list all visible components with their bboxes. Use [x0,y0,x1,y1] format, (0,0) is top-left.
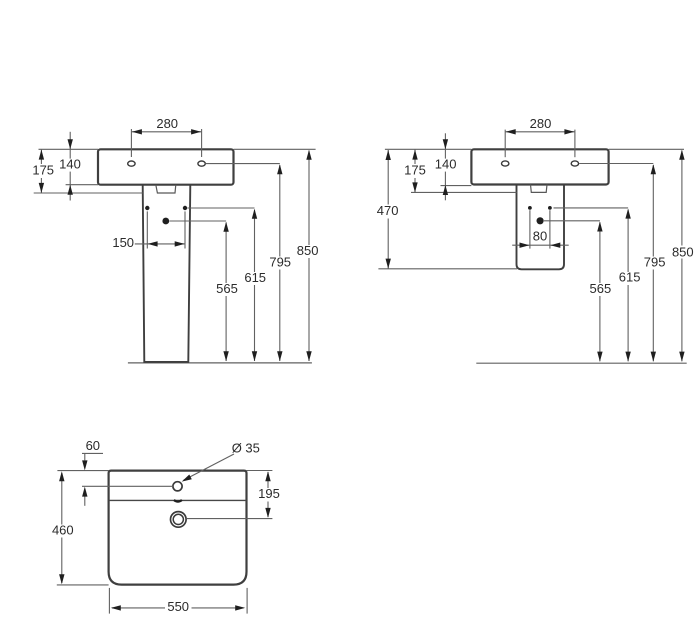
svg-text:550: 550 [167,599,189,614]
tap hole right (front view) [198,161,205,166]
dimension 470 (right figure) [377,150,399,269]
dimension 60 (plan view) [82,438,103,506]
extension line tap hole row (plan view) [82,485,173,487]
dimension 565 (left figure) [216,222,238,362]
dimension 795 (left figure) [269,164,291,361]
floor line (left figure) [128,362,312,364]
basin plan outline [109,471,247,585]
extension line waste hole (right figure) [544,220,600,222]
svg-text:60: 60 [86,438,100,453]
svg-text:195: 195 [258,486,280,501]
dimension 850 (right figure) [672,150,694,362]
svg-text:Ø 35: Ø 35 [232,440,260,455]
dimension 280 (right figure) [505,116,575,157]
extension line basin bottom (right figure) [441,185,472,187]
svg-text:615: 615 [244,270,266,285]
waste outlet inner circle (plan view) [173,514,183,524]
svg-text:280: 280 [530,116,552,131]
svg-text:565: 565 [590,281,612,296]
dimension 195 (plan view) [258,471,280,518]
dimension 175 (left figure) [32,150,54,193]
tap hole left (front view) [128,161,135,166]
dimension 80 (semi-pedestal holes) [512,210,569,248]
waste hole (pedestal) [162,218,169,225]
extension line plan top edge right [247,470,273,472]
svg-text:150: 150 [112,235,134,250]
extension line 550 right [246,588,248,614]
tap hole right (right figure) [571,161,578,166]
dimension 550 (plan view) [111,599,245,614]
extension line semi-pedestal bottom [378,268,517,270]
fixing hole left (semi-pedestal) [528,206,532,210]
dimension 140 (left figure) [59,132,81,201]
svg-text:80: 80 [533,229,547,244]
extension line plan bottom edge left [57,584,109,586]
extension line waste row (plan view) [186,518,272,520]
svg-text:140: 140 [59,157,81,172]
dimension 850 (left figure) [297,150,319,361]
extension line tap holes (right figure) [579,163,653,165]
svg-text:470: 470 [377,203,399,218]
extension line fixing holes (right figure) [554,207,629,209]
floor line (right figure) [476,362,686,364]
tap hole (plan view) [173,482,182,491]
fixing hole right (semi-pedestal) [548,206,552,210]
extension line 175 bottom (right figure) [411,191,517,193]
pedestal P1 (full pedestal outline) [143,185,191,362]
svg-text:280: 280 [156,116,178,131]
tap hole left (right figure) [502,161,509,166]
dimension 280 (left figure) [131,116,201,157]
extension line waste hole (left figure) [169,220,226,222]
fixing hole right (pedestal) [183,206,187,210]
extension line plan top edge left [57,470,108,472]
extension line basin bottom left [66,184,98,186]
waste hole (semi-pedestal) [537,217,544,224]
dimension 615 (right figure) [619,209,641,362]
label diameter 35 with leader [182,440,260,481]
dimension 615 (left figure) [244,209,266,362]
dimension 565 (right figure) [590,222,612,362]
extension line tap holes (left figure) [205,163,279,165]
svg-text:795: 795 [644,254,666,269]
semi-pedestal P2 outline [517,185,565,270]
back ledge line (plan view) [109,499,247,501]
svg-text:850: 850 [672,244,694,259]
svg-text:565: 565 [216,281,238,296]
svg-text:795: 795 [269,254,291,269]
svg-text:140: 140 [435,157,457,172]
dimension 175 (right figure) [404,150,426,193]
extension line 550 left [108,588,110,614]
svg-text:175: 175 [404,162,426,177]
dimension 460 (plan view) [52,471,74,584]
dimension 150 (pedestal holes, left figure) [112,211,185,250]
svg-text:615: 615 [619,270,641,285]
basin body (right figure) [471,149,608,184]
svg-text:850: 850 [297,243,319,258]
fixing hole left (pedestal) [145,206,149,210]
basin body (front view) [98,149,234,184]
extension line basin top (right figure) [385,148,684,150]
svg-text:175: 175 [32,163,54,178]
overflow slot (plan view) [174,500,182,502]
extension line 175 bottom (left figure) [34,192,143,194]
dimension 795 (right figure) [644,164,666,361]
extension line basin top (left figure) [39,148,316,150]
extension line fixing holes (left figure) [188,207,255,209]
drain recess below basin [156,185,176,193]
waste outlet outer circle (plan view) [171,512,187,528]
svg-text:460: 460 [52,522,74,537]
drain recess below basin (right figure) [531,185,548,193]
dimension 140 (right figure) [435,133,457,200]
